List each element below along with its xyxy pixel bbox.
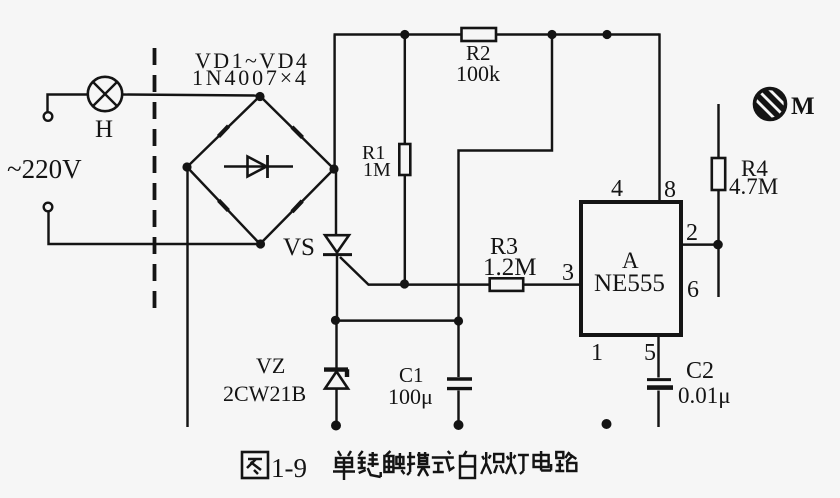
svg-text:1M: 1M <box>363 159 391 181</box>
node: C1 bottom terminal dot <box>454 420 464 430</box>
wire: bridge positive output up to top rail <box>333 35 335 170</box>
wire: R3 to IC pin 3 <box>523 283 579 285</box>
svg-text:~220V: ~220V <box>7 154 82 184</box>
lamp H (circle with X) <box>88 77 122 111</box>
wire: AC terminal 1 up to lamp <box>48 95 89 114</box>
svg-text:0.01μ: 0.01μ <box>678 383 731 408</box>
caption character CHI <box>481 452 504 474</box>
node: VZ bottom terminal dot <box>331 421 341 431</box>
caption character DAN <box>333 451 355 480</box>
node: gate junction at R1 bottom <box>400 279 409 288</box>
wire: touch plate branch through R4 <box>717 104 719 297</box>
AC input terminal 2 (open circle) <box>44 203 53 212</box>
svg-text:100μ: 100μ <box>388 384 433 409</box>
thyristor VS anode wire <box>335 169 337 234</box>
svg-text:NE555: NE555 <box>594 270 665 297</box>
caption character BAI <box>460 451 475 478</box>
node: bridge bottom vertex <box>256 239 265 248</box>
caption character TU (figure) <box>242 452 268 478</box>
caption character JIAN <box>358 451 381 477</box>
svg-text:VZ: VZ <box>256 353 285 378</box>
wire: R3 input from gate node <box>404 283 489 285</box>
svg-text:8: 8 <box>664 177 676 203</box>
phase separation dashed line <box>153 48 157 310</box>
svg-text:6: 6 <box>687 277 699 303</box>
caption character SHI <box>432 451 455 472</box>
wire: top rail down to IC pin 8 <box>658 33 660 200</box>
svg-text:2: 2 <box>686 220 698 246</box>
caption character LU <box>555 452 576 471</box>
wire: lamp to bridge top vertex <box>122 95 257 96</box>
node: rail junction for timing branch <box>547 30 556 39</box>
wire: VS cathode node to C1 node <box>335 319 458 321</box>
node: C1 top junction <box>454 316 463 325</box>
node: bridge left vertex <box>182 162 191 171</box>
capacitor C2 at pin 5 <box>647 337 673 427</box>
resistor R4 <box>712 158 725 190</box>
node: stray ground dot below pin 1 <box>602 419 612 429</box>
wire: IC pin 2 to R4 node <box>683 243 718 245</box>
bridge rectifier VD1~VD4 (diamond) <box>187 96 334 244</box>
node: rail junction at R1 <box>400 30 409 39</box>
wire: timing branch from rail to C1 node <box>459 35 553 322</box>
wire: AC terminal 2 to bridge bottom vertex <box>49 212 258 245</box>
svg-text:100k: 100k <box>456 61 500 86</box>
node: VS cathode junction <box>331 316 340 325</box>
svg-text:M: M <box>791 93 815 120</box>
caption character MO <box>407 452 430 476</box>
node: pin 2 junction <box>713 240 723 250</box>
svg-text:VS: VS <box>283 234 315 261</box>
svg-text:1-9: 1-9 <box>271 453 307 483</box>
svg-text:4: 4 <box>611 176 623 202</box>
caption character DENG <box>506 452 529 474</box>
resistor R1 <box>399 144 410 175</box>
zener diode VZ <box>324 322 348 422</box>
svg-text:H: H <box>95 116 113 143</box>
svg-text:5: 5 <box>644 340 656 366</box>
op-amp U1: IC A NE555 box <box>581 202 681 335</box>
svg-text:3: 3 <box>562 260 574 286</box>
caption character DIAN <box>534 451 552 471</box>
svg-text:1: 1 <box>591 340 603 366</box>
svg-text:2CW21B: 2CW21B <box>223 381 306 406</box>
bridge inner diode symbol <box>224 155 293 178</box>
AC input terminal 1 (open circle) <box>44 112 53 121</box>
svg-text:4.7M: 4.7M <box>729 174 778 199</box>
node: rail stub dot for pin 4 <box>602 30 611 39</box>
capacitor C1 <box>447 322 472 421</box>
node: bridge right vertex <box>329 164 338 173</box>
wire: bridge negative output down (left rail) <box>186 169 188 427</box>
svg-text:1N4007×4: 1N4007×4 <box>192 65 309 90</box>
resistor R2 <box>462 28 497 41</box>
svg-text:1.2M: 1.2M <box>483 254 536 281</box>
node: bridge top vertex <box>255 92 264 101</box>
wire: R1 vertical branch <box>404 35 406 285</box>
touch plate M (hatched circle) <box>743 75 803 135</box>
caption character CHU <box>384 451 405 474</box>
thyristor VS <box>323 235 404 318</box>
resistor R3 <box>490 278 524 291</box>
svg-text:C2: C2 <box>686 358 714 384</box>
wire: top supply rail <box>334 33 660 35</box>
